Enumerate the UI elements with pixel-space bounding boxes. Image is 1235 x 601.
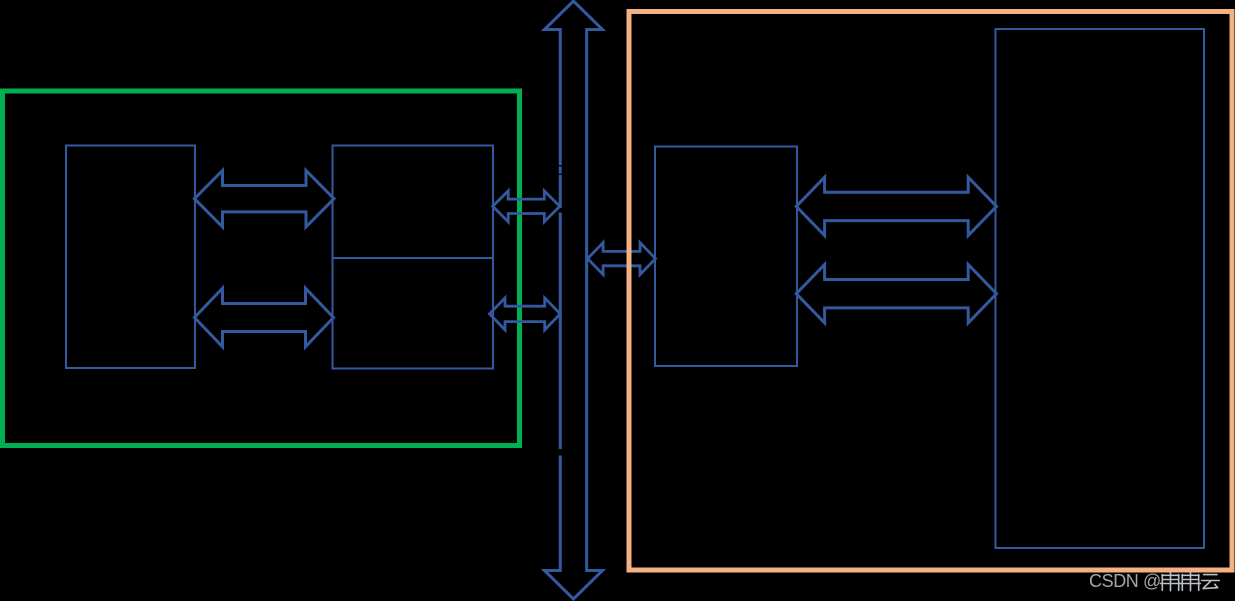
wire arrow A: CPU box to upper memory box [195, 171, 335, 227]
svg-text:CSDN @: CSDN @ [1089, 571, 1161, 591]
watermark glyph ran 2 [1180, 571, 1200, 591]
box R3: lower memory [333, 258, 494, 369]
watermark glyph ran 1 [1160, 571, 1180, 591]
wire arrow B: CPU box to lower memory box [195, 288, 334, 347]
wire arrow F: interface to devices (lower) [796, 265, 996, 323]
watermark glyph yun [1202, 575, 1219, 589]
green frame (host enclosure) [3, 91, 520, 446]
orange frame (peripheral enclosure) [629, 12, 1232, 571]
wire arrow D: lower memory box to bus [490, 298, 561, 330]
bus: vertical double-headed system-bus arrow [544, 1, 602, 599]
box R4: I/O interface [655, 147, 797, 367]
box R5: peripheral devices [996, 29, 1205, 548]
label fragment 2 (dark mark over bus line) [559, 449, 563, 456]
wire arrow M: bus to I/O interface box [588, 243, 656, 275]
box R1: CPU [66, 146, 195, 369]
box R2: upper memory [333, 146, 494, 259]
wire arrow E: interface to devices (upper) [796, 177, 996, 235]
svg-text:C: C [554, 162, 565, 179]
gap in bus line below arrow tip [558, 208, 562, 213]
wire arrow C: upper memory box to bus [493, 191, 560, 222]
